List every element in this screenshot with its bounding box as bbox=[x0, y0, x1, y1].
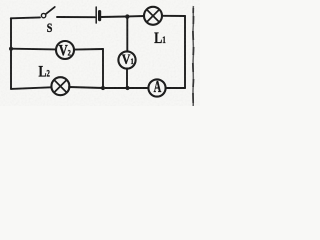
wire battery to node bbox=[102, 16, 127, 19]
wire V1 node to V2 node bbox=[103, 87, 128, 89]
wire V1 drop upper bbox=[126, 17, 128, 52]
wire node to lamp L1 bbox=[128, 15, 144, 17]
wire V2 node to lamp L2 bbox=[69, 87, 103, 88]
wire L1 to right corner bbox=[162, 15, 185, 17]
wire V2 branch drop bbox=[102, 49, 104, 88]
node junction bottom V2 bbox=[101, 86, 105, 90]
wire right side bbox=[184, 16, 186, 88]
battery cell bbox=[95, 7, 97, 23]
node junction top (V1 tap) bbox=[125, 14, 129, 18]
wire left side bbox=[10, 18, 12, 89]
voltmeter V2 bbox=[56, 41, 74, 59]
wire bottom-right segment bbox=[166, 87, 185, 89]
page edge rule bbox=[192, 6, 194, 106]
wire V2 branch left bbox=[11, 48, 56, 51]
ammeter A bbox=[148, 79, 165, 96]
lamp L1 bbox=[144, 7, 162, 25]
wire top-left segment bbox=[11, 16, 40, 19]
node junction bottom V1 bbox=[125, 86, 129, 90]
lamp L2 bbox=[51, 77, 69, 95]
wire ammeter to V1 node bbox=[128, 87, 148, 89]
wire switch to battery bbox=[57, 16, 95, 18]
paper grain overlay bbox=[0, 0, 200, 106]
wire V2 to corner bbox=[74, 48, 103, 51]
background paper bbox=[0, 0, 200, 106]
node junction left (V2 branch) bbox=[9, 47, 13, 51]
page edge rule dark patches bbox=[192, 8, 195, 103]
wire V1 drop lower bbox=[126, 69, 128, 88]
switch S bbox=[41, 13, 45, 17]
voltmeter V1 bbox=[118, 51, 135, 68]
wire L2 to bottom-left corner bbox=[11, 87, 51, 89]
